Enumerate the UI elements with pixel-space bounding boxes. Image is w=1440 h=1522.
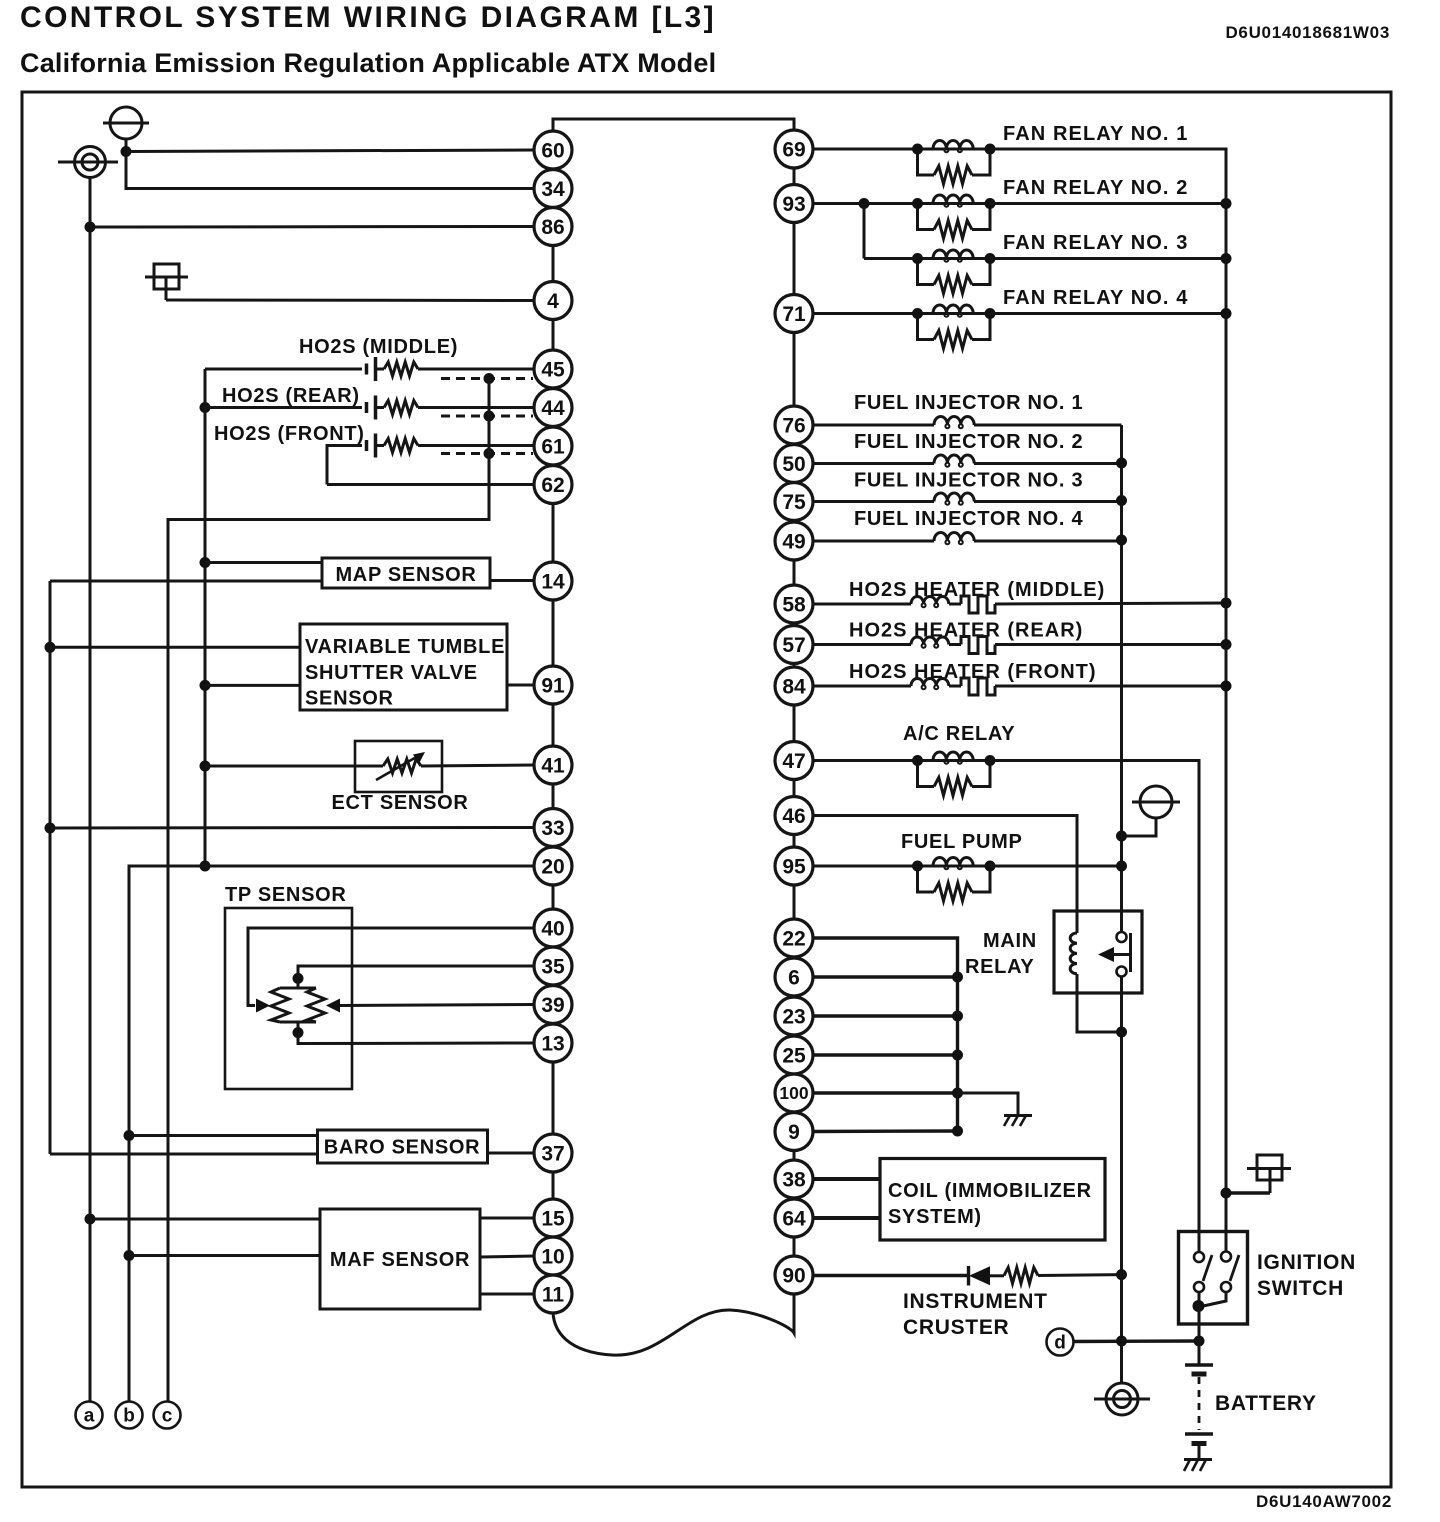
svg-text:14: 14 [541,570,565,593]
wire top interconnect 60 to 69 [553,119,794,150]
svg-text:HO2S (MIDDLE): HO2S (MIDDLE) [299,336,458,358]
svg-text:22: 22 [782,927,805,950]
pin 44 [534,389,572,427]
coil immobilizer system box [880,1159,1105,1241]
wire sensor feed vertical x205 [204,369,207,866]
svg-text:46: 46 [782,805,805,828]
svg-text:D6U140AW7002: D6U140AW7002 [1256,1492,1392,1511]
pin 41 [534,746,572,784]
pin 71 [775,295,813,333]
wire pin 38 to coil box [813,1177,881,1181]
svg-text:IGNITION: IGNITION [1257,1251,1356,1274]
wire resistor to main bus [1038,1269,1127,1280]
svg-text:41: 41 [541,754,565,777]
wire MAF feed from net a [85,1214,321,1225]
svg-text:61: 61 [541,435,565,458]
wire main relay output junction [1077,977,1127,1384]
wire MAP sensor to pin 14 [490,579,535,582]
svg-text:MAF SENSOR: MAF SENSOR [330,1249,470,1271]
svg-text:HO2S (REAR): HO2S (REAR) [222,385,360,407]
fuel injector no.3 coil [813,493,1128,506]
svg-text:13: 13 [541,1032,564,1055]
pin 86 [534,208,572,246]
svg-text:FUEL INJECTOR NO. 4: FUEL INJECTOR NO. 4 [854,508,1083,530]
svg-text:4: 4 [547,290,559,313]
wire pin 46 to main relay coil [813,816,1078,912]
fan relay no.4 [912,305,996,349]
wire pin 13 to TP bottom node [298,1033,535,1044]
fuel injector no.4 coil [813,533,1128,546]
TP sensor potentiometer [271,973,325,1038]
wire fan relay 2 to right bus [990,198,1232,209]
pin 34 [534,170,572,208]
ground G3 circle-cross near fuel pump [1116,786,1180,842]
pin 47 [775,742,813,780]
shield dashed wire pin 45 [441,373,533,384]
svg-text:64: 64 [782,1207,806,1230]
wire pin 40 to TP wiper left arrow [248,928,535,1013]
resistor R1 instrument cluster [1004,1268,1038,1284]
wire fan relay 4 to right bus [990,308,1232,319]
svg-text:BATTERY: BATTERY [1215,1392,1317,1415]
wire heater middle to right bus [995,598,1232,609]
wire net a vertical [89,178,92,1402]
variable tumble shutter valve sensor box [300,624,507,710]
svg-text:15: 15 [541,1207,565,1230]
pin 100 [775,1074,813,1112]
svg-text:MAP SENSOR: MAP SENSOR [335,564,476,586]
svg-text:11: 11 [542,1283,565,1306]
pin 90 [775,1256,813,1294]
wire ECU harness break curve [553,1294,794,1355]
wire pin 22 to common bus [813,938,958,1131]
svg-text:INSTRUMENT: INSTRUMENT [903,1290,1048,1313]
connector J2 near ignition switch [1247,1155,1291,1193]
pin 62 [534,466,572,504]
wire ECT sensor feed [200,761,384,772]
ground G6 chassis ground battery [1184,1460,1212,1472]
svg-text:44: 44 [541,397,565,420]
svg-text:10: 10 [541,1245,564,1268]
fan relay no.1 [912,140,996,184]
ground G4 chassis ground hatch [1004,1116,1032,1127]
TP sensor box [225,908,352,1089]
svg-text:39: 39 [541,994,564,1017]
svg-text:33: 33 [541,817,564,840]
battery B1 [1185,1341,1213,1459]
MAF sensor box [320,1209,480,1309]
main relay coil [1070,911,1077,993]
wire pin 62 to front sensor return [327,483,535,486]
wire MAP sensor supply [200,557,323,568]
wire node d to battery feed [1074,1336,1205,1347]
wire BARO feed from net b [124,1130,318,1141]
svg-text:MAIN: MAIN [983,930,1037,952]
node c [154,1402,181,1429]
wire MAF to pin 11 [480,1293,535,1296]
pin 69 [775,130,813,168]
svg-text:A/C RELAY: A/C RELAY [903,723,1015,745]
pin 6 [775,958,813,996]
svg-text:95: 95 [782,855,806,878]
fuel injector no.2 coil [813,455,1128,469]
svg-text:49: 49 [782,530,805,553]
wire pin 20 to net b [129,861,535,1402]
svg-text:ECT SENSOR: ECT SENSOR [331,792,468,814]
svg-text:CRUSTER: CRUSTER [903,1316,1009,1339]
label MAIN RELAY [965,930,1037,978]
svg-text:SYSTEM): SYSTEM) [888,1206,982,1228]
pin 50 [775,445,813,483]
svg-text:FUEL INJECTOR NO. 2: FUEL INJECTOR NO. 2 [854,431,1083,453]
wire to pin 34 [126,152,535,189]
main relay switch [1098,932,1131,977]
svg-text:VARIABLE TUMBLE: VARIABLE TUMBLE [305,636,505,658]
wire MAF to pin 15 [480,1217,535,1220]
svg-text:23: 23 [782,1005,805,1028]
wire MAF feed from net b [124,1250,321,1261]
shield dashed wire pin 44 [441,411,533,422]
wire injector bus vertical [1120,425,1123,932]
wire pin 95 to fuel pump [813,865,918,868]
pin 23 [775,997,813,1035]
wire heater rear to right bus [995,639,1232,650]
HO2S middle sensor cell and resistor [205,357,535,381]
svg-text:91: 91 [541,674,565,697]
wire pin 6 to common bus [813,972,964,983]
svg-text:38: 38 [782,1168,806,1191]
pin 76 [775,406,813,444]
pin 20 [534,847,572,885]
svg-text:c: c [162,1406,173,1427]
pin 61 [534,427,572,465]
wire BARO to pin 37 [488,1152,535,1155]
wire pin 64 to coil box [813,1216,881,1220]
pin 4 [534,282,572,320]
svg-text:FUEL PUMP: FUEL PUMP [901,831,1023,853]
HO2S heater middle element [813,603,912,606]
wire pin 33 to net x50 [45,823,535,834]
svg-text:86: 86 [541,216,564,239]
node b [116,1402,143,1429]
pin 25 [775,1036,813,1074]
pin 33 [534,809,572,847]
ground G1 circle-cross top left [103,107,149,152]
svg-text:HO2S (FRONT): HO2S (FRONT) [214,423,365,445]
svg-text:20: 20 [541,855,564,878]
ignition switch box [1179,1232,1248,1325]
wire to pin 86 [85,222,535,233]
wire fuel pump to main bus [990,861,1127,872]
svg-text:FAN RELAY NO. 3: FAN RELAY NO. 3 [1003,232,1188,254]
wire net x50 vertical [49,581,52,1154]
pin 57 [775,626,813,664]
shield dashed wire pin 61 [441,448,533,459]
svg-text:35: 35 [541,955,565,978]
svg-text:FUEL INJECTOR NO. 1: FUEL INJECTOR NO. 1 [854,392,1083,414]
node d [1047,1329,1074,1356]
svg-text:TP SENSOR: TP SENSOR [225,884,347,906]
svg-text:60: 60 [541,139,564,162]
svg-text:37: 37 [541,1142,564,1165]
HO2S rear sensor cell and resistor [200,396,535,420]
svg-text:84: 84 [782,675,806,698]
svg-text:90: 90 [782,1264,805,1287]
pin 91 [534,666,572,704]
wire heater front to right bus [995,681,1232,692]
A/C relay coil [912,752,996,796]
pin 95 [775,847,813,885]
pin 45 [534,350,572,388]
svg-text:6: 6 [788,966,800,989]
svg-text:47: 47 [782,750,805,773]
wire fan relay 1 to right bus [990,149,1226,1251]
main relay box [1054,911,1142,993]
svg-text:45: 45 [541,358,565,381]
wire A/C relay to ignition switch feed [990,761,1199,1252]
wire ECU left column bus [552,119,555,1312]
pin 10 [534,1237,572,1275]
svg-text:25: 25 [782,1044,806,1067]
pin 13 [534,1024,572,1062]
ignition switch contacts [1193,1252,1240,1342]
fan relay no.2 [912,195,996,239]
heater element front [911,678,995,695]
svg-text:75: 75 [782,491,806,514]
heater element rear [911,637,995,654]
svg-text:57: 57 [782,634,805,657]
svg-text:93: 93 [782,193,805,216]
BARO sensor box [318,1130,488,1163]
wire fan relay 3 to right bus [864,253,1232,264]
svg-text:100: 100 [779,1083,808,1103]
pin 11 [534,1275,572,1313]
wire MAP sensor ground to net x50 [50,580,322,583]
pin 14 [534,562,572,600]
svg-text:50: 50 [782,453,805,476]
ECT sensor box with thermistor [355,741,442,792]
node a [76,1402,103,1429]
pin 9 [775,1113,813,1151]
svg-text:COIL (IMMOBILIZER: COIL (IMMOBILIZER [888,1180,1092,1202]
svg-text:69: 69 [782,138,805,161]
svg-text:FUEL INJECTOR NO. 3: FUEL INJECTOR NO. 3 [854,470,1083,492]
pin 46 [775,797,813,835]
svg-text:a: a [84,1406,95,1427]
svg-text:HO2S HEATER (REAR): HO2S HEATER (REAR) [849,620,1083,642]
fuel pump relay coil [912,858,996,902]
pin 93 [775,185,813,223]
pin 84 [775,667,813,705]
wire pin 93 branch junction [813,198,918,259]
svg-text:CONTROL SYSTEM WIRING DIAGRAM: CONTROL SYSTEM WIRING DIAGRAM [L3] [20,1,716,34]
wire BARO ground to net x50 [50,1153,318,1156]
pin 39 [534,986,572,1024]
ground G5 shield ground bottom [1094,1383,1150,1415]
diode D1 instrument cluster [969,1266,1005,1286]
pin 35 [534,947,572,985]
wire shield bus to net c [168,379,489,1402]
pin 58 [775,585,813,623]
wire pin 25 to common bus [813,1050,964,1061]
svg-text:b: b [123,1406,135,1427]
wire MAF to pin 10 [480,1256,535,1257]
svg-text:62: 62 [541,474,564,497]
svg-text:76: 76 [782,414,805,437]
pin 37 [534,1134,572,1172]
wire pin 9 to common bus [813,1126,964,1137]
wire ECT sensor to pin 41 [421,765,535,766]
svg-text:d: d [1054,1333,1066,1354]
svg-text:HO2S HEATER (FRONT): HO2S HEATER (FRONT) [849,661,1097,683]
svg-text:California Emission Regulation: California Emission Regulation Applicabl… [20,48,716,78]
svg-text:FAN RELAY NO. 1: FAN RELAY NO. 1 [1003,123,1188,145]
HO2S heater front element [813,685,912,688]
wire to pin 4 [166,299,535,303]
svg-text:D6U014018681W03: D6U014018681W03 [1225,23,1390,42]
svg-text:FAN RELAY NO. 2: FAN RELAY NO. 2 [1003,177,1188,199]
pin 49 [775,522,813,560]
wire pin 47 to A/C relay [813,759,918,762]
wire pin 35 to TP top node [298,966,535,978]
wire to pin 60 [121,146,535,157]
wire VTSV to pin 91 [507,684,535,687]
HO2S heater rear element [813,643,912,646]
fan relay no.3 [912,250,996,294]
svg-text:SENSOR: SENSOR [305,688,394,710]
svg-text:SWITCH: SWITCH [1257,1277,1344,1300]
wire pin 71 to fan relay 4 [813,312,918,315]
svg-text:9: 9 [788,1121,800,1144]
heater element middle [911,596,995,613]
ground G2 shield ground symbol [58,147,118,178]
label INSTRUMENT CRUSTER [903,1290,1048,1339]
wire pin 23 to common bus [813,1011,964,1022]
HO2S front sensor cell and resistor [327,434,535,485]
svg-text:FAN RELAY NO. 4: FAN RELAY NO. 4 [1003,287,1188,309]
connector J1 top left [145,264,188,300]
wire pin 69 to fan relay 1 [813,148,918,151]
wire pin 39 to TP wiper right arrow [326,999,535,1013]
fuel injector no.1 coil [813,417,1122,429]
pin 75 [775,483,813,521]
wire pin 100 to common bus [813,1088,964,1099]
MAP sensor box [322,558,490,588]
pin 64 [775,1199,813,1237]
svg-text:58: 58 [782,593,806,616]
pin 60 [534,131,572,169]
wire pin 90 to instrument cluster [813,1274,969,1277]
svg-text:BARO SENSOR: BARO SENSOR [324,1137,481,1159]
svg-text:RELAY: RELAY [965,956,1034,978]
pin 38 [775,1160,813,1198]
wire VTSV supply from net x50 [45,642,301,653]
svg-text:SHUTTER VALVE: SHUTTER VALVE [305,662,478,684]
svg-text:71: 71 [782,303,806,326]
svg-text:40: 40 [541,917,564,940]
wire common bus to chassis ground [958,1093,1019,1115]
label IGNITION SWITCH [1257,1251,1356,1300]
wire connector J2 to right bus [1221,1188,1271,1199]
pin 22 [775,919,813,957]
wire ECU right column bus [793,131,796,1294]
svg-text:34: 34 [541,178,565,201]
pin 40 [534,909,572,947]
pin 15 [534,1199,572,1237]
wire VTSV signal feed [200,680,301,691]
